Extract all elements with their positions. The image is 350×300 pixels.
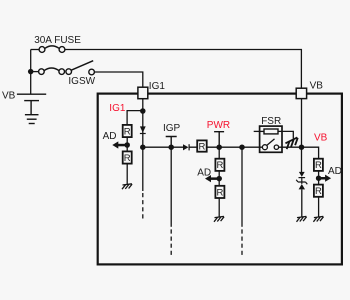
wire: R to R (right) (318, 171, 320, 185)
zener diode (VB line, pointing up) (296, 178, 307, 190)
ground (left branch) (122, 184, 132, 189)
AD arrow (right branch, pointing right) (319, 175, 332, 182)
svg-text:30A FUSE: 30A FUSE (34, 35, 81, 46)
wire: R to R (218, 171, 220, 186)
resistor R (right top) (314, 159, 323, 172)
junction dot IG1 branch (140, 108, 146, 114)
relay contacts (262, 139, 278, 150)
svg-text:IG1: IG1 (109, 103, 126, 114)
svg-text:IGSW: IGSW (68, 76, 95, 87)
svg-text:IG1: IG1 (149, 81, 166, 92)
svg-text:PWR: PWR (207, 120, 230, 131)
wire: second row to fuse (31, 71, 39, 73)
svg-text:AD: AD (328, 166, 342, 177)
ECU box (98, 94, 342, 265)
junction dot PWR (216, 144, 222, 150)
junction dot on battery feed (28, 69, 34, 75)
diode (IG1 line, pointing down) (140, 126, 146, 134)
wire: IG1 terminal down to bus (142, 99, 144, 148)
wire: relay to VB line and right branch (279, 147, 319, 159)
junction dot bus-IG1 (140, 144, 146, 150)
diode (VB line, pointing down) (299, 172, 306, 178)
relay FSR box (260, 126, 282, 152)
battery VB (17, 94, 46, 114)
PWR stub terminal (214, 132, 224, 148)
wire: switch to IG1 terminal (94, 72, 142, 87)
wire: fuse to VB terminal (65, 50, 302, 89)
dashed continuation line 2 (170, 147, 172, 227)
svg-text:VB: VB (310, 80, 324, 91)
resistor R (left top) (123, 125, 132, 137)
svg-text:R: R (315, 186, 322, 197)
diode (bus, pointing right) (183, 144, 190, 150)
dashed continuation line 3 (241, 147, 243, 227)
ground (middle branch) (214, 216, 224, 221)
svg-text:FSR: FSR (261, 116, 281, 127)
ground (right branch) (313, 216, 323, 221)
junction dot (AD tap right) (316, 175, 322, 181)
resistor R (left bottom) (123, 151, 132, 164)
wire: top row to fuse (31, 49, 40, 51)
terminal IG1 (138, 87, 148, 99)
wire: coil to side ground (278, 131, 293, 138)
junction dot (AD tap left) (124, 142, 130, 148)
dashed continuation line 1 (142, 147, 144, 191)
relay coil (264, 129, 278, 134)
svg-text:VB: VB (314, 132, 328, 143)
wire: R to ground (126, 164, 128, 185)
junction dot line4 (239, 144, 245, 150)
wire: VB terminal down (301, 99, 303, 173)
svg-text:R: R (315, 160, 322, 171)
fuse (ignition feed) (39, 68, 65, 74)
svg-text:R: R (216, 187, 223, 198)
svg-text:IGP: IGP (163, 123, 181, 134)
ground (VB line) (297, 216, 307, 221)
wire: R to junction (126, 137, 128, 151)
wire: battery feed vertical (30, 50, 32, 95)
wire: R to ground (middle) (218, 198, 220, 217)
resistor R (right bottom) (314, 185, 323, 198)
wire: middle branch down (218, 147, 220, 159)
resistor R (middle top) (215, 159, 224, 172)
svg-text:R: R (124, 153, 131, 164)
terminal VB (296, 88, 306, 98)
IGP stub terminal (166, 137, 177, 148)
ground (relay coil) (284, 137, 300, 149)
AD arrow (middle branch) (205, 175, 219, 182)
svg-text:R: R (216, 160, 223, 171)
svg-text:AD: AD (197, 167, 211, 178)
bus wire (main horizontal) (143, 146, 263, 148)
junction dot IGP (168, 144, 174, 150)
earth ground (battery) (25, 115, 39, 124)
svg-text:R: R (198, 141, 205, 152)
fuse 30A (circle-arc-circle) (39, 46, 65, 52)
resistor R (middle bottom) (215, 186, 224, 199)
junction dot (AD tap middle) (216, 176, 222, 182)
relay coil stub (left) (254, 130, 264, 132)
junction dot VB line (299, 144, 305, 150)
resistor R (bus) (197, 140, 207, 152)
svg-text:R: R (124, 126, 131, 137)
AD arrow (left branch) (112, 141, 127, 148)
svg-text:VB: VB (2, 91, 16, 102)
wire: zener to ground (301, 189, 303, 216)
switch IGSW (66, 61, 95, 75)
wire: elbow to left resistor (127, 111, 143, 125)
svg-text:AD: AD (103, 131, 117, 142)
wire: R to ground (right) (318, 197, 320, 217)
